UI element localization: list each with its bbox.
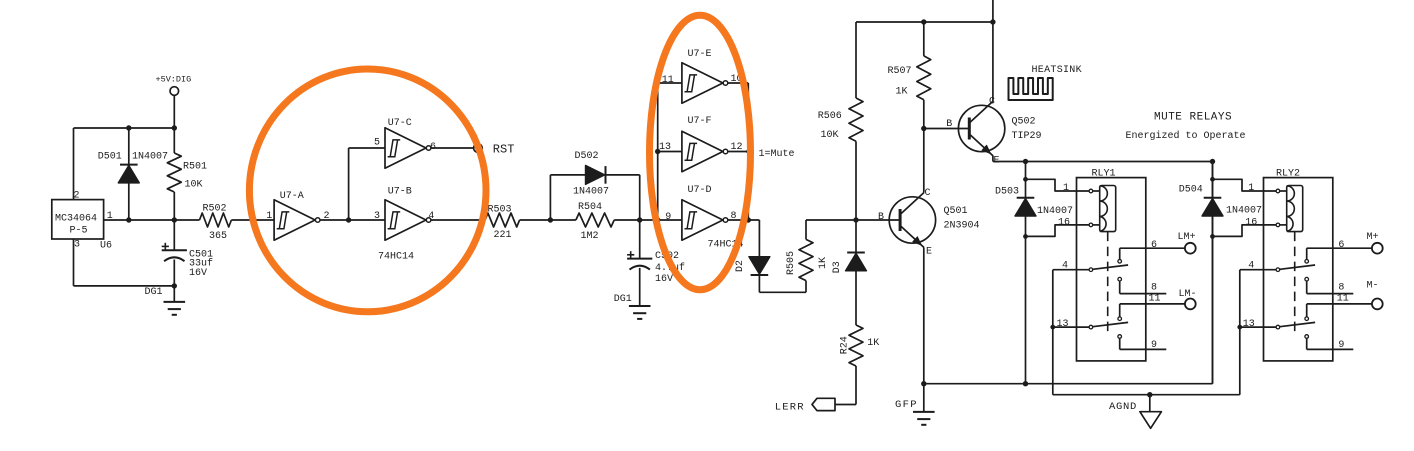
svg-text:Energized to Operate: Energized to Operate <box>1126 130 1246 142</box>
svg-text:GFP: GFP <box>895 399 918 411</box>
svg-text:2: 2 <box>324 211 330 222</box>
svg-text:2: 2 <box>74 191 80 202</box>
svg-text:D2: D2 <box>735 260 746 272</box>
svg-text:M+: M+ <box>1367 232 1379 243</box>
svg-text:1M2: 1M2 <box>581 231 599 242</box>
svg-text:Q502: Q502 <box>1012 116 1036 127</box>
svg-text:8: 8 <box>1338 283 1344 294</box>
svg-text:4: 4 <box>428 211 434 222</box>
svg-text:AGND: AGND <box>1109 401 1137 413</box>
svg-text:74HC14: 74HC14 <box>378 252 414 263</box>
svg-text:1K: 1K <box>867 338 879 349</box>
svg-text:4: 4 <box>1248 260 1254 271</box>
svg-text:DG1: DG1 <box>614 294 632 305</box>
svg-text:3: 3 <box>74 240 80 251</box>
svg-text:MC34064: MC34064 <box>55 214 97 225</box>
svg-text:9: 9 <box>665 212 671 223</box>
svg-text:13: 13 <box>1243 319 1255 330</box>
svg-text:13: 13 <box>1057 319 1069 330</box>
svg-text:TIP29: TIP29 <box>1012 131 1042 142</box>
svg-text:R504: R504 <box>578 202 602 213</box>
svg-text:RLY2: RLY2 <box>1276 169 1300 180</box>
svg-text:HEATSINK: HEATSINK <box>1032 65 1082 76</box>
svg-text:LM+: LM+ <box>1178 232 1196 243</box>
svg-text:6: 6 <box>1338 240 1344 251</box>
svg-text:U7-A: U7-A <box>280 191 304 202</box>
svg-text:LM-: LM- <box>1179 289 1197 300</box>
svg-text:U7-D: U7-D <box>688 185 712 196</box>
svg-text:C: C <box>925 188 931 199</box>
svg-text:R506: R506 <box>818 111 842 122</box>
svg-text:D501: D501 <box>98 152 122 163</box>
svg-text:R502: R502 <box>203 204 227 215</box>
svg-text:5: 5 <box>374 138 380 149</box>
svg-text:R505: R505 <box>786 251 797 275</box>
svg-text:16: 16 <box>1058 217 1070 228</box>
svg-text:DG1: DG1 <box>145 287 163 298</box>
svg-text:MUTE RELAYS: MUTE RELAYS <box>1154 112 1232 124</box>
svg-text:11: 11 <box>1337 294 1349 305</box>
svg-text:6: 6 <box>1151 240 1157 251</box>
svg-text:D503: D503 <box>995 186 1019 197</box>
svg-text:10K: 10K <box>185 180 203 191</box>
svg-text:1K: 1K <box>818 257 829 269</box>
svg-text:C: C <box>989 96 995 107</box>
svg-text:221: 221 <box>494 230 512 241</box>
svg-text:8: 8 <box>1151 283 1157 294</box>
svg-text:365: 365 <box>209 231 227 242</box>
svg-text:10K: 10K <box>821 130 839 141</box>
svg-text:9: 9 <box>1338 340 1344 351</box>
svg-text:R501: R501 <box>183 162 207 173</box>
svg-text:D502: D502 <box>575 151 599 162</box>
svg-text:13: 13 <box>659 142 671 153</box>
svg-text:U7-C: U7-C <box>388 118 412 129</box>
svg-text:6: 6 <box>430 142 436 153</box>
svg-text:9: 9 <box>1151 340 1157 351</box>
svg-text:11: 11 <box>1149 294 1161 305</box>
svg-text:Q501: Q501 <box>944 206 968 217</box>
svg-text:U7-F: U7-F <box>688 116 712 127</box>
svg-text:1N4007: 1N4007 <box>132 152 168 163</box>
svg-text:R24: R24 <box>840 336 851 354</box>
svg-text:P-5: P-5 <box>70 226 88 237</box>
svg-text:1N4007: 1N4007 <box>1037 206 1073 217</box>
svg-text:R507: R507 <box>888 66 912 77</box>
svg-text:B: B <box>946 119 952 130</box>
svg-text:11: 11 <box>662 75 674 86</box>
svg-text:4: 4 <box>1062 260 1068 271</box>
svg-text:LERR: LERR <box>775 401 805 413</box>
svg-text:E: E <box>926 246 932 257</box>
svg-text:M-: M- <box>1367 281 1379 292</box>
svg-text:RLY1: RLY1 <box>1092 169 1116 180</box>
svg-text:1K: 1K <box>896 87 908 98</box>
svg-text:1: 1 <box>1248 183 1254 194</box>
svg-text:2N3904: 2N3904 <box>944 221 980 232</box>
svg-text:+5V:DIG: +5V:DIG <box>156 75 192 85</box>
svg-text:16V: 16V <box>189 268 207 279</box>
svg-text:1N4007: 1N4007 <box>573 187 609 198</box>
svg-text:1: 1 <box>266 211 272 222</box>
svg-text:U7-E: U7-E <box>688 49 712 60</box>
svg-text:D3: D3 <box>832 261 843 273</box>
svg-text:1=Mute: 1=Mute <box>759 149 795 160</box>
svg-text:RST: RST <box>493 143 515 157</box>
svg-text:12: 12 <box>731 142 743 153</box>
svg-text:3: 3 <box>374 211 380 222</box>
svg-text:1: 1 <box>107 211 113 222</box>
svg-text:16V: 16V <box>655 274 673 285</box>
svg-text:D504: D504 <box>1179 184 1203 195</box>
svg-text:1N4007: 1N4007 <box>1226 205 1262 216</box>
svg-text:B: B <box>878 212 884 223</box>
svg-text:E: E <box>994 155 1000 166</box>
svg-text:8: 8 <box>731 211 737 222</box>
svg-text:1: 1 <box>1063 183 1069 194</box>
svg-text:16: 16 <box>1245 217 1257 228</box>
svg-text:R503: R503 <box>488 204 512 215</box>
svg-text:U6: U6 <box>100 241 112 252</box>
svg-text:U7-B: U7-B <box>388 186 412 197</box>
